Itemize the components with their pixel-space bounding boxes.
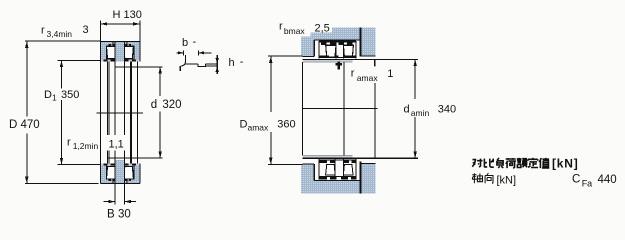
washer top rail bottom section [319,159,356,161]
shaft washer sleeve (top) [115,42,124,62]
svg-text:1: 1 [387,68,393,80]
dimension B 30 [103,200,136,220]
bottom gray cage band [101,163,140,165]
svg-text:350: 350 [61,89,79,101]
svg-text:1: 1 [52,93,57,103]
dimension D_amax 360 [240,56,303,164]
char 额 [517,158,527,168]
bottom cage band dashes [103,163,136,165]
svg-text:B: B [107,208,115,220]
housing bore line top [314,39,361,41]
svg-text:340: 340 [438,104,456,116]
top cage band dashes [103,60,136,62]
svg-text:b: b [182,37,188,49]
svg-text:1,2min: 1,2min [73,141,99,151]
sleeve edge lines top [114,42,116,67]
char 轴 [472,173,483,183]
svg-text:d: d [151,99,157,111]
bearing top section: washer edges [318,41,320,58]
housing bore edge top-left [313,40,315,57]
relief groove [198,64,206,67]
svg-text:Fa: Fa [582,178,593,188]
bottom housing washer shading [101,165,140,183]
char 荷 [506,158,516,168]
centerline [97,112,143,114]
svg-text:D: D [44,89,52,101]
top washer lip outlines [106,42,113,60]
char 向 [485,173,493,183]
char 负 [497,158,503,168]
svg-text:2,5: 2,5 [315,23,330,35]
svg-text:3,4min: 3,4min [47,29,73,39]
svg-text:440: 440 [598,174,617,186]
svg-text:H 130: H 130 [113,9,142,21]
svg-text:r: r [67,137,71,149]
svg-text:r: r [279,21,283,33]
seat interface line top [303,61,353,63]
top cage rail dashes [109,44,131,46]
svg-text:1,1: 1,1 [109,138,124,150]
dimension d_amin 340 [404,59,457,158]
housing split line (thick, top) [360,28,362,57]
bottom housing block shading [301,164,376,194]
bearing outline box [100,41,139,43]
svg-text:amin: amin [411,108,430,118]
locating pin mark top [337,62,340,70]
CJK heading: 对比负荷额定值 [kN] (bold) [472,158,549,168]
dimension H 130 [100,9,141,42]
svg-text:[kN]: [kN] [552,157,579,171]
label r_3,4min 3 [41,24,89,39]
top roller right [124,46,134,58]
dimension D 470 [9,41,100,183]
svg-text:bmax: bmax [284,26,306,36]
bottom rollers [326,165,336,175]
h dimension [216,55,218,74]
top roller left [107,46,116,58]
shaft silhouette edges middle [302,62,304,155]
bearing top rail [319,41,356,43]
seat interface line bottom [303,156,353,158]
bottom roller right [124,166,134,179]
sleeve edge lines bottom [114,158,116,183]
svg-text:D: D [240,119,248,131]
char 对 [472,159,482,168]
svg-text:320: 320 [162,99,181,111]
svg-text:r: r [41,25,45,37]
bore line top (d extension) [114,66,162,68]
centerline right [302,108,377,110]
bottom roller left [107,166,116,179]
svg-text:-: - [240,56,244,68]
C_Fa 440 [572,174,617,189]
top gray cage band [101,60,140,62]
svg-text:30: 30 [118,208,131,220]
bearing bottom rail [319,176,356,178]
housing bore line bottom [314,179,361,181]
top rollers [326,45,336,57]
CJK line2: 轴向 [kN] [472,173,493,183]
central washer top [335,42,337,59]
svg-text:r: r [351,68,355,80]
svg-text:-: - [193,36,197,48]
char 定 [528,158,538,168]
washer bottom rail top section [319,57,356,59]
housing shoulder face bottom-left [303,163,315,165]
bore line bottom (d extension) [108,157,163,159]
shaft shoulder line top [303,58,419,60]
top housing washer shading [101,42,140,60]
shoulder profile [180,55,185,71]
B extension lines (sleeve edges continued) [114,67,116,205]
dimension d 320 [151,67,182,158]
svg-text:d: d [404,104,410,116]
label r_1,2min 1,1 [67,135,126,151]
label r_bmax 2,5 [278,21,333,37]
svg-text:360: 360 [277,119,295,131]
svg-text:[kN]: [kN] [497,175,517,187]
bottom cage rail dashes [109,179,131,181]
bearing bottom section: washer edges [318,159,320,179]
char 比 [484,159,493,168]
middle silhouette lines [106,62,108,164]
housing shoulder face top-left [303,55,315,57]
shaft washer sleeve (bottom) [115,160,124,183]
housing bore edge bottom-left [313,164,315,181]
bottom washer lip outlines [106,165,113,183]
dimension D1 350 [44,60,100,164]
svg-text:3: 3 [83,24,89,36]
top housing block shading [301,28,376,57]
housing split line (thick, bottom) [360,162,362,194]
svg-text:D 470: D 470 [9,119,40,131]
central washer bottom [334,157,336,176]
svg-text:amax: amax [248,123,270,133]
housing cover face top-right [361,55,375,57]
housing cover face bottom-right [361,163,375,165]
svg-text:h: h [229,57,235,69]
svg-text:amax: amax [357,73,379,83]
label r_amax 1 [350,60,394,83]
char 值 [539,158,549,168]
b dimension [182,51,184,56]
svg-text:C: C [572,174,580,186]
cage dashes top [321,43,353,45]
shaft shoulder line bottom [303,157,419,159]
